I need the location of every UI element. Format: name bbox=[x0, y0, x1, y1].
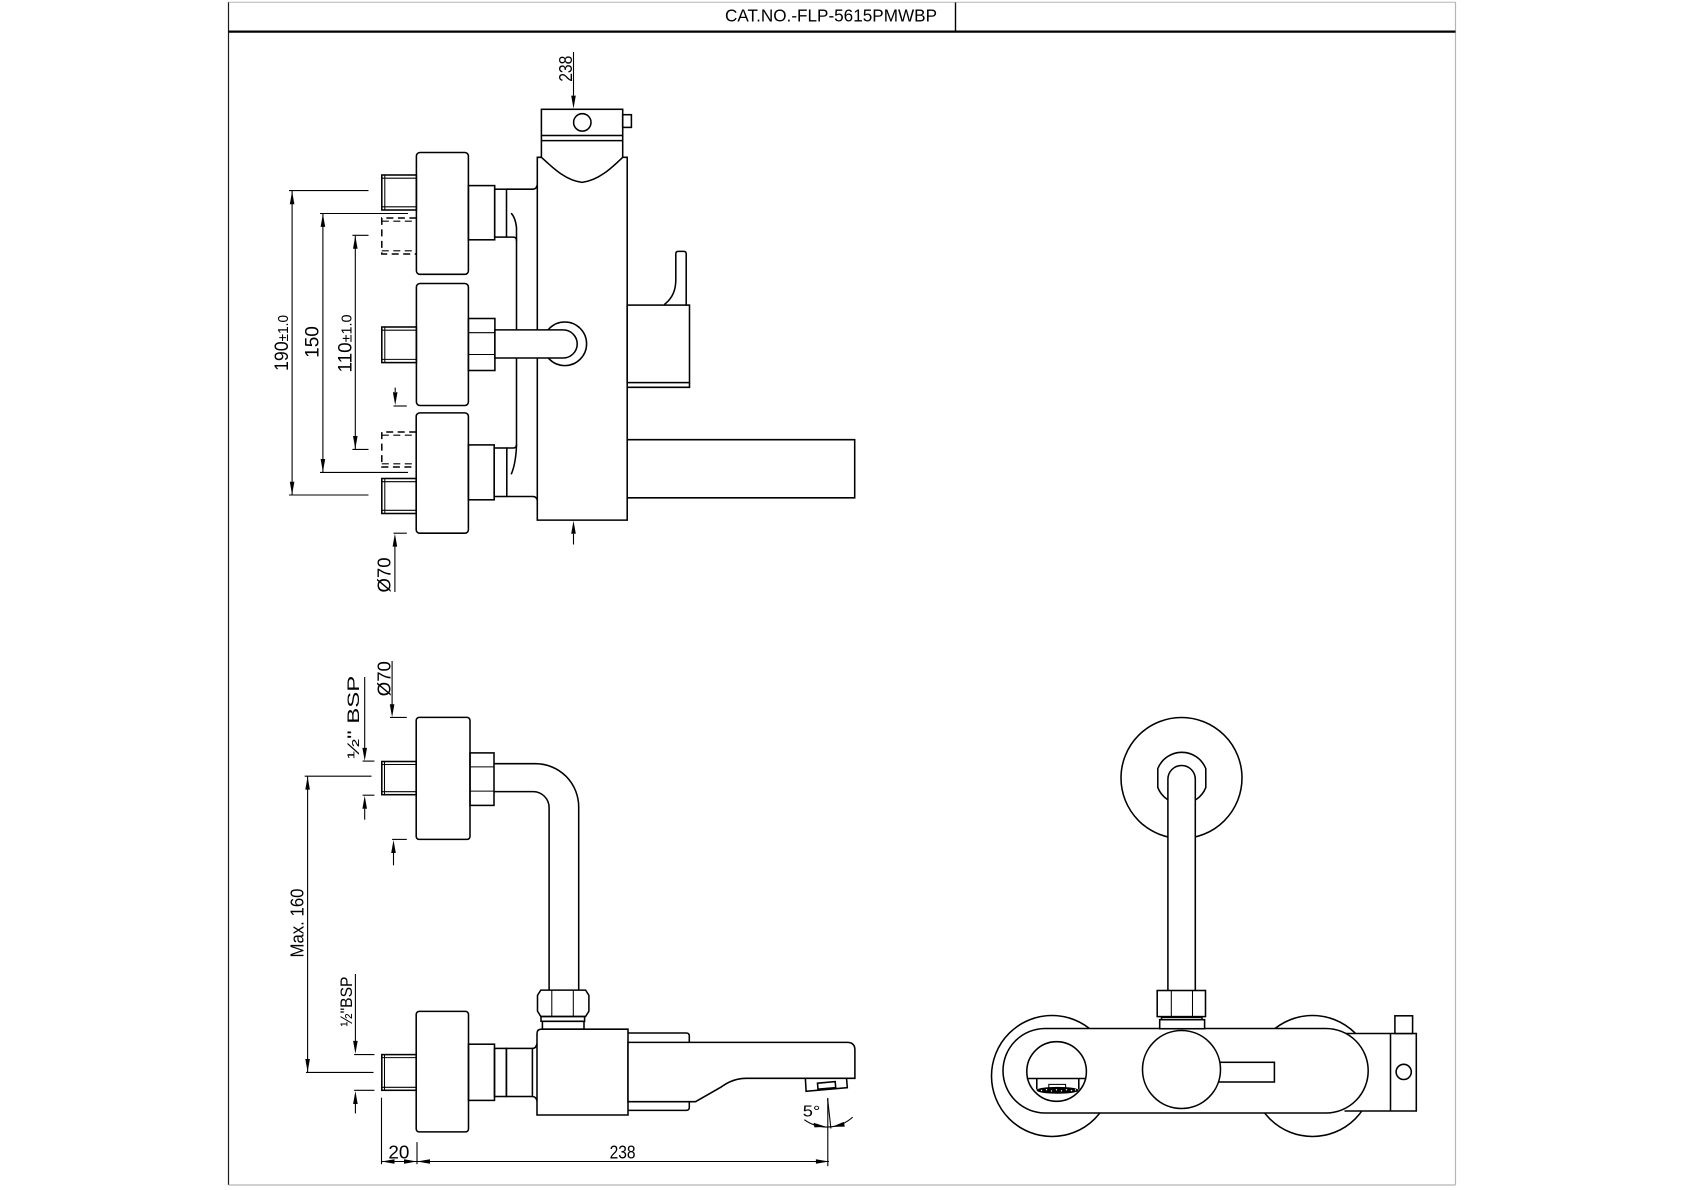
svg-text:CAT.NO.-FLP-5615PMWBP: CAT.NO.-FLP-5615PMWBP bbox=[725, 6, 937, 26]
U3 collar bbox=[494, 448, 507, 497]
title bar separator bbox=[229, 31, 1456, 33]
svg-text:Ø70: Ø70 bbox=[375, 558, 395, 593]
handle block bbox=[627, 305, 689, 383]
U1 dashed nipple (hidden) bbox=[382, 218, 417, 254]
dimension 110±1.0 arrow up bbox=[353, 236, 358, 249]
wall union U1 flange bbox=[416, 153, 468, 275]
barrel fillet top to body bbox=[532, 1044, 537, 1049]
dimension 20 ext line right bbox=[416, 1142, 418, 1164]
Max.160 arrow up bbox=[305, 777, 310, 790]
spout (top view) bbox=[627, 440, 855, 498]
spout aerator outer (tilted) bbox=[805, 1079, 847, 1092]
right flange circle bbox=[1252, 1016, 1373, 1137]
dimension Max.160 ext bottom bbox=[306, 1071, 374, 1073]
U2 nipple bbox=[382, 327, 417, 363]
U3 top ledge to wall bbox=[507, 445, 517, 449]
body bottom reference arrow up bbox=[571, 521, 576, 534]
dimension 110±1.0 arrow down bbox=[353, 436, 358, 449]
knob side verticals bbox=[1036, 1079, 1038, 1090]
238 arrows bbox=[417, 1159, 430, 1164]
top flange right side bbox=[622, 136, 624, 158]
lower pipe nut (front view) bbox=[1157, 991, 1205, 1017]
spout (bottom view) bbox=[628, 1042, 855, 1101]
wall union U3 flange bbox=[416, 413, 468, 533]
wall surface break line bbox=[511, 213, 516, 474]
top hex nut with flats bbox=[1158, 752, 1206, 804]
washer under nut bbox=[541, 1017, 585, 1022]
block top tab bbox=[1395, 1016, 1413, 1034]
20 arrows bbox=[382, 1159, 395, 1164]
middle flange reference arrow down bbox=[394, 388, 396, 392]
Max.160 arrow down bbox=[305, 1059, 310, 1072]
bottom union spacer bbox=[495, 1048, 507, 1096]
main body column bbox=[537, 157, 627, 520]
dimension 238 leader line top bbox=[573, 52, 575, 96]
dimension 150 extension line bottom bbox=[320, 471, 408, 473]
dimension 190±1.0 arrow down bbox=[290, 482, 295, 495]
dimension 20 ext line left bbox=[381, 1098, 383, 1165]
dimension 20/238 line bbox=[382, 1161, 829, 1163]
knob chord line bbox=[1027, 1078, 1087, 1080]
handle lever (front view) bbox=[1218, 1062, 1275, 1082]
svg-text:238: 238 bbox=[610, 1143, 636, 1163]
U1 top ledge to body bbox=[507, 185, 538, 190]
U1 collar bbox=[495, 189, 507, 237]
left flange circle bbox=[992, 1016, 1113, 1137]
Ø70 leader line bbox=[394, 546, 396, 592]
bottom union barrel bbox=[506, 1048, 532, 1096]
svg-text:20: 20 bbox=[388, 1143, 409, 1163]
svg-text:5°: 5° bbox=[803, 1104, 821, 1121]
dimension 150 arrow up bbox=[321, 214, 326, 227]
dimension 150 arrow down bbox=[321, 459, 326, 472]
U3 dashed nipple (hidden) bbox=[382, 432, 416, 467]
spout end knob circle bbox=[1027, 1042, 1087, 1102]
bottom union nipple bbox=[382, 1055, 416, 1091]
Ø70 arrow up bbox=[393, 534, 398, 547]
handle block lower strip bbox=[627, 383, 689, 388]
arrow up at nipple bottom bbox=[353, 1091, 358, 1104]
U3 nipple bbox=[382, 479, 416, 514]
dimension 190±1.0 line bbox=[291, 191, 293, 495]
5° reference vertical line bbox=[827, 1098, 829, 1166]
tick at nipple bottom (bottom union) bbox=[354, 1089, 374, 1091]
dimension 110±1.0 extension line top bbox=[352, 234, 368, 236]
dimension 110±1.0 extension line bottom bbox=[352, 448, 368, 450]
tick at nipple top bbox=[363, 760, 375, 762]
shower union nipple bbox=[382, 762, 416, 795]
5° arc arrowheads bbox=[814, 1123, 827, 1128]
middle flange reference tick bbox=[394, 405, 407, 407]
barrel fillet bottom to body bbox=[532, 1097, 537, 1102]
top flange left side bbox=[540, 136, 542, 158]
knob small rect bbox=[1049, 1084, 1066, 1088]
Ø70 arrow down bbox=[390, 704, 395, 717]
5° dimension arc bbox=[804, 1117, 852, 1127]
arrow up at nipple bottom bbox=[362, 796, 367, 809]
dimension 190±1.0 arrow up bbox=[290, 191, 295, 204]
U2 adapter bbox=[468, 319, 495, 371]
svg-text:190±1.0: 190±1.0 bbox=[272, 315, 293, 371]
top flange second line bbox=[541, 140, 622, 142]
svg-text:110±1.0: 110±1.0 bbox=[336, 315, 357, 373]
tick at nipple bottom bbox=[363, 794, 375, 796]
svg-text:½"BSP: ½"BSP bbox=[337, 977, 356, 1027]
boss under washer bbox=[542, 1021, 584, 1029]
U2 inlet elbow circle bbox=[543, 322, 587, 366]
U1 adapter bbox=[468, 186, 494, 240]
U3 adapter bbox=[468, 445, 494, 500]
U2 inlet pipe bbox=[495, 330, 577, 358]
spout aerator inner bbox=[818, 1082, 836, 1090]
washer (front view) bbox=[1162, 1017, 1203, 1019]
svg-text:Max. 160: Max. 160 bbox=[288, 889, 308, 958]
½" BSP leader line + arrow bbox=[364, 677, 366, 748]
bracket plate behind spout bbox=[628, 1033, 689, 1110]
drawing frame border bbox=[228, 2, 230, 1185]
pipe nut bbox=[538, 990, 589, 1016]
dimension 150 extension line top bbox=[320, 213, 408, 215]
tick at nipple top (bottom union) bbox=[354, 1054, 374, 1056]
block screw hole bbox=[1396, 1064, 1411, 1079]
5° tilted line bbox=[828, 1099, 831, 1129]
svg-text:150: 150 bbox=[303, 326, 324, 358]
U1 bottom ledge to wall bbox=[507, 237, 517, 241]
title bar divider bbox=[955, 3, 957, 32]
shower union flange (bottom view) bbox=[416, 717, 470, 839]
flange bottom reference tick bbox=[392, 838, 407, 840]
aerator dark ellipse bbox=[1037, 1087, 1078, 1093]
shower elbow pipe inner bbox=[494, 792, 549, 991]
bottom union flange (bottom view) bbox=[416, 1011, 468, 1132]
mixer body (bottom view) bbox=[537, 1029, 628, 1115]
top flange circle (front view) bbox=[1121, 718, 1242, 839]
svg-text:238: 238 bbox=[556, 56, 576, 82]
dimension Max.160 line bbox=[307, 777, 309, 1072]
dimension 150 line bbox=[322, 214, 324, 472]
boss (front view) bbox=[1160, 1020, 1205, 1029]
dimension Max.160 ext top bbox=[305, 775, 372, 777]
dimension 238 arrow down to flange bbox=[571, 96, 576, 109]
top flange side tab bbox=[623, 115, 632, 128]
handle lever bbox=[665, 251, 687, 305]
svg-text:½" BSP: ½" BSP bbox=[344, 676, 363, 759]
U3 bottom ledge to body bbox=[507, 497, 538, 501]
flange bottom reference arrow up bbox=[391, 840, 396, 853]
top flange hole circle bbox=[574, 114, 591, 131]
Ø70 tick at bottom flange bbox=[394, 532, 407, 534]
handle base circle bbox=[1143, 1031, 1221, 1109]
body capsule bbox=[1003, 1029, 1368, 1114]
Ø70 tick at flange top bbox=[390, 716, 407, 718]
wall union U2 flange bbox=[416, 284, 468, 406]
dimension 190±1.0 extension line bottom bbox=[289, 494, 369, 496]
svg-text:Ø70: Ø70 bbox=[375, 661, 395, 696]
bottom union adapter bbox=[469, 1044, 495, 1100]
shower pipe (front view) bbox=[1168, 766, 1195, 992]
Ø70 leader line bbox=[391, 661, 393, 705]
dimension 190±1.0 extension line top bbox=[289, 190, 369, 192]
U1 nipple bbox=[382, 175, 417, 210]
top pipe flange cap bbox=[541, 109, 622, 135]
½"BSP leader + arrow bbox=[354, 974, 356, 1041]
shower union hex adapter bbox=[470, 753, 494, 806]
right wall bracket block bbox=[1345, 1034, 1417, 1112]
dimension 110±1.0 line bbox=[354, 236, 356, 449]
shower elbow pipe outer bbox=[494, 764, 579, 990]
block division line bbox=[1390, 1034, 1392, 1112]
